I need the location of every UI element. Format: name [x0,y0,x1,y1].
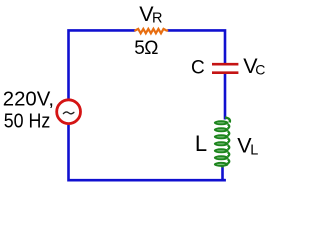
wire capacitor to inductor [224,74,227,120]
inductor L coil [214,117,230,167]
svg-text:220V,: 220V, [3,88,54,110]
svg-text:L: L [250,142,258,158]
svg-text:C: C [191,58,205,79]
resistor R (5 ohm) zigzag [135,29,167,33]
svg-text:5: 5 [134,38,145,59]
AC source tilde [63,112,74,114]
capacitor C bottom plate [212,71,238,74]
svg-text:L: L [195,131,207,156]
label 5 Ohm [134,38,158,59]
svg-text:R: R [152,11,162,27]
wire top-left segment [69,30,136,98]
label V_C [243,54,265,78]
wire bottom segment [69,125,226,180]
label 220V 50Hz line2 [4,110,51,132]
label V_R [139,2,162,27]
svg-text:Ω: Ω [144,38,158,59]
svg-text:50 Hz: 50 Hz [4,110,51,132]
svg-text:C: C [255,61,265,77]
label C [191,58,205,79]
AC source circle [57,100,81,124]
wire inductor to bottom [223,166,226,180]
wire top-right segment [167,30,225,63]
label V_L [237,133,258,158]
label L [195,131,207,156]
label 220V 50Hz line1 [3,88,54,110]
capacitor C top plate [212,63,238,66]
